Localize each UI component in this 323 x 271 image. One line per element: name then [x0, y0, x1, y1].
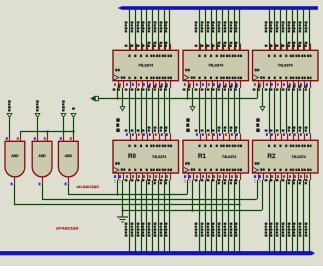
junction node [72, 130, 74, 132]
wire Q1 U1 to D1 R0 [131, 88, 136, 136]
svg-text:st=A&C1&S: st=A&C1&S [77, 184, 100, 189]
wire Q2 U3 to D2 R2 [276, 88, 281, 136]
pin 1 of R2 (bottom) [258, 173, 260, 180]
pin D3 of U1 (top) [147, 44, 149, 51]
wire Q1 U3 to D1 R2 [270, 88, 275, 136]
pin D1 of R1 (top) [206, 134, 208, 141]
pin 1 of U1 (bottom) [113, 81, 119, 91]
driver chip U2 74LS374 (top row) [183, 50, 249, 80]
pin D7 of R0 (top) [170, 134, 172, 141]
pin 9 of U2 (bottom) [212, 81, 218, 91]
pin D4 of R2 (top) [293, 134, 295, 141]
wire R2 Q4 to bottom bus [288, 180, 293, 252]
wire R0 Q2 to bottom bus [137, 180, 142, 252]
wire R0 Q1 to bottom bus [131, 180, 136, 252]
pin 11 of R0 (bottom) [123, 173, 125, 180]
pin 15 of R1 (bottom) [229, 173, 231, 180]
pin number label R0 pin 6 [137, 175, 140, 181]
wire gate U7 output down [14, 184, 16, 206]
junction node [116, 193, 118, 195]
pin 15 of R2 (bottom) [298, 173, 300, 180]
svg-text:R0: R0 [128, 153, 136, 160]
pin number label R2 pin 5 [270, 175, 273, 181]
wire bus tap XD17 [235, 8, 240, 50]
pin 6 of U2 (bottom) [207, 81, 213, 91]
wire Q0 U2 to D0 R1 [195, 88, 200, 136]
wire R2 Q2 to bottom bus [276, 180, 281, 252]
wire Q0 U3 to D0 R2 [265, 88, 270, 136]
wire R2 Q5 to bottom bus [293, 180, 298, 252]
wire Q0 U1 to D0 R0 [125, 88, 130, 136]
wire bus tap XD21 [270, 8, 275, 50]
pin 16 of U1 (bottom) [160, 81, 166, 91]
net label mark at gate U8 output [39, 183, 41, 186]
wire Q7 U1 to D7 R0 [165, 88, 170, 136]
wire R0 pin11 down to ground [122, 180, 124, 217]
wire bus tap XD16 [230, 8, 235, 50]
wire bus tap XD04 [148, 8, 153, 50]
pin D2 of U3 (top) [281, 44, 283, 51]
terminal IOR1 [35, 100, 40, 117]
pin D5 of R0 (top) [159, 134, 161, 141]
pin number label R0 pin 15 [154, 175, 157, 184]
wire R0 pin1 down to gate3 line [117, 180, 119, 195]
pin number label R2 pin 16 [299, 175, 302, 184]
pin 11 of U3 (bottom) [258, 81, 264, 91]
pin D5 of R2 (top) [298, 134, 300, 141]
wire R0 Q6 to bottom bus [160, 180, 165, 252]
pin D6 of U2 (top) [235, 44, 237, 51]
wire R2 Q0 to bottom bus [265, 180, 270, 252]
wire R1 Q0 to bottom bus [195, 180, 200, 252]
pin 6 of U1 (bottom) [137, 81, 143, 91]
pin 5 of R2 (bottom) [275, 173, 277, 180]
pin number label R0 pin 19 [165, 175, 168, 184]
wire terminal S down to shared line [73, 117, 75, 131]
wire gate1 output line to R1 Q7 column [15, 204, 240, 206]
pin D1 of U1 (top) [136, 44, 138, 51]
pin 5 of U2 (bottom) [201, 81, 207, 91]
pin D0 of U2 (top) [200, 44, 202, 51]
pin D2 of R0 (top) [142, 134, 144, 141]
terminal S [71, 108, 76, 118]
pin D3 of R0 (top) [147, 134, 149, 141]
pin 16 of U3 (bottom) [299, 81, 305, 91]
pin number label R1 pin 5 [201, 175, 204, 181]
wire right input of gate U7 [20, 131, 22, 135]
register chip R1 74LS374 (bottom row) [183, 140, 249, 173]
pin D1 of U3 (top) [275, 44, 277, 51]
pin D1 of U2 (top) [206, 44, 208, 51]
pin 19 of R0 (bottom) [170, 173, 172, 180]
pin output of gate U9 [68, 177, 70, 184]
wire R1 Q4 to bottom bus [218, 180, 223, 252]
pin number label R0 pin 16 [160, 175, 163, 184]
junction node [46, 130, 48, 132]
wire terminal IOR0 to gate [9, 117, 11, 134]
wire Q4 U1 to D4 R0 [148, 88, 153, 136]
pin 11 of U1 (bottom) [118, 81, 124, 91]
net label marks at gate U9 inputs [60, 137, 72, 140]
wire Q3 U3 to D3 R2 [282, 88, 287, 136]
net label marks at gate U8 inputs [34, 137, 46, 140]
pin 1 of R0 (bottom) [118, 173, 120, 180]
wire terminal IOR1 to gate [37, 117, 39, 134]
pin number label R2 pin 19 [305, 175, 308, 184]
pin number label R0 pin 5 [131, 175, 134, 181]
wire bus tap XD13 [212, 8, 217, 50]
pin 12 of U1 (bottom) [148, 81, 154, 91]
wire Q5 U2 to D5 R1 [224, 88, 229, 136]
wire gate U8 output down [42, 184, 44, 200]
pin number label R1 pin 12 [218, 175, 221, 184]
wire bus tap XD20 [265, 8, 270, 50]
wire Q4 U2 to D4 R1 [218, 88, 223, 136]
pin number label R2 pin 6 [276, 175, 279, 181]
svg-text:R1: R1 [198, 153, 206, 160]
wire bus tap XD24 [288, 8, 293, 50]
bus: bottom data bus [0, 251, 315, 255]
wire bus tap XD11 [201, 8, 206, 50]
wire R2 Q3 to bottom bus [282, 180, 287, 252]
pin D2 of U2 (top) [212, 44, 214, 51]
wire R0 Q3 to bottom bus [142, 180, 147, 252]
wire R1 Q2 to bottom bus [207, 180, 212, 252]
wire ground tie line to R2 pin11 [123, 180, 263, 211]
svg-text:74LS374: 74LS374 [138, 63, 154, 67]
wire bus tap XD26 [299, 8, 304, 50]
pin D2 of R1 (top) [212, 134, 214, 141]
pin number label R1 pin 19 [235, 175, 238, 184]
pin D3 of R2 (top) [287, 134, 289, 141]
pin input-right of gate U7 [20, 135, 22, 142]
net label mark R2 pin 11 [259, 175, 261, 182]
wire Q3 U2 to D3 R1 [212, 88, 217, 136]
pin D4 of R1 (top) [223, 134, 225, 141]
net label mark at gate U9 output [65, 183, 67, 186]
wire Q6 U3 to D6 R2 [299, 88, 304, 136]
net label mark R0 pin 1 [114, 175, 116, 182]
terminal SB1 (input, down arrow) [186, 107, 195, 132]
pin D4 of R0 (top) [153, 134, 155, 141]
wire R2 Q7 to bottom bus [305, 180, 310, 252]
pin 12 of U2 (bottom) [218, 81, 224, 91]
pin D0 of R1 (top) [200, 134, 202, 141]
pin D7 of U2 (top) [240, 44, 242, 51]
net label mark R2 pin 1 [254, 175, 256, 182]
pin 16 of R0 (bottom) [165, 173, 167, 180]
pin 19 of U1 (bottom) [165, 81, 171, 91]
pin 16 of R1 (bottom) [235, 173, 237, 180]
pin D0 of R2 (top) [270, 134, 272, 141]
pin number label R1 pin 6 [207, 175, 210, 181]
pin D6 of U1 (top) [165, 44, 167, 51]
wire bus tap XD07 [165, 8, 170, 50]
pin 15 of R0 (bottom) [159, 173, 161, 180]
svg-text:AND: AND [38, 154, 46, 158]
pin number label R2 pin 9 [282, 175, 285, 181]
pin 9 of U1 (bottom) [142, 81, 148, 91]
pin 9 of U3 (bottom) [282, 81, 288, 91]
wire terminal IOR2 to gate [63, 117, 65, 134]
pin 11 of U2 (bottom) [188, 81, 194, 91]
wire R1 Q1 to bottom bus [201, 180, 206, 252]
pin 2 of R2 (bottom) [270, 173, 272, 180]
wire bus tap XD01 [131, 8, 136, 50]
svg-text:74LS374: 74LS374 [208, 63, 224, 67]
wire R0 Q7 to bottom bus [165, 180, 170, 252]
wire bus tap XD22 [276, 8, 281, 50]
pin 11 of R2 (bottom) [263, 173, 265, 180]
pin 2 of U3 (bottom) [265, 81, 271, 91]
pin number label R0 pin 2 [125, 175, 128, 181]
junction node [238, 203, 240, 205]
pin number label R0 pin 12 [148, 175, 151, 184]
pin 6 of R0 (bottom) [142, 173, 144, 180]
pin 11 of R1 (bottom) [193, 173, 195, 180]
pin D2 of U1 (top) [142, 44, 144, 51]
pin 19 of R1 (bottom) [240, 173, 242, 180]
pin 19 of U2 (bottom) [235, 81, 241, 91]
wire bus tap XD15 [224, 8, 229, 50]
svg-text:R2: R2 [268, 153, 276, 160]
pin 2 of U1 (bottom) [125, 81, 131, 91]
terminal IOR0 [7, 100, 12, 117]
wire Q4 U3 to D4 R2 [288, 88, 293, 136]
wire bus tap XD05 [154, 8, 159, 50]
wire gate U9 output down [68, 184, 70, 195]
pin D2 of R2 (top) [281, 134, 283, 141]
svg-text:74LS374: 74LS374 [278, 63, 294, 67]
pin D3 of U2 (top) [217, 44, 219, 51]
pin 5 of R0 (bottom) [136, 173, 138, 180]
wire R1 Q7 to bottom bus [235, 180, 240, 252]
net label mark R1 pin 1 [184, 175, 186, 182]
pin 6 of R2 (bottom) [281, 173, 283, 180]
wire R0 Q4 to bottom bus [148, 180, 153, 252]
wire bus tap XD12 [207, 8, 212, 50]
wire bus tap XD00 [125, 8, 130, 50]
wire shared S line across gate right inputs [20, 131, 73, 133]
wire bus tap XD02 [137, 8, 142, 50]
svg-text:AND: AND [11, 154, 19, 158]
pin D6 of R0 (top) [165, 134, 167, 141]
pin D6 of R2 (top) [304, 134, 306, 141]
pin number label R1 pin 15 [224, 175, 227, 184]
pin D5 of U2 (top) [229, 44, 231, 51]
pin D7 of U1 (top) [170, 44, 172, 51]
wire Q6 U2 to D6 R1 [230, 88, 235, 136]
pin 1 of U2 (bottom) [183, 81, 189, 91]
register chip R2 74LS374 (bottom row) [253, 140, 319, 173]
pin input-left of gate U7 [9, 135, 11, 142]
and-gate U8 [32, 141, 52, 177]
pin 9 of R2 (bottom) [287, 173, 289, 180]
wire R2 Q6 to bottom bus [299, 180, 304, 252]
junction node [191, 209, 193, 211]
wire bus tap XD23 [282, 8, 287, 50]
pin 16 of U2 (bottom) [230, 81, 236, 91]
pin 5 of U3 (bottom) [270, 81, 276, 91]
terminal IOR2 [61, 100, 66, 117]
ground [117, 217, 128, 222]
pin D5 of R1 (top) [229, 134, 231, 141]
pin D6 of U3 (top) [304, 44, 306, 51]
pin number label R1 pin 9 [212, 175, 215, 181]
pin 12 of R0 (bottom) [153, 173, 155, 180]
terminal SB2 (input, down arrow) [256, 107, 265, 132]
wire Q5 U3 to D5 R2 [293, 88, 298, 136]
pin D0 of U3 (top) [270, 44, 272, 51]
pin 15 of U3 (bottom) [293, 81, 299, 91]
wire Q7 U3 to D7 R2 [305, 88, 310, 136]
wire R0 Q5 to bottom bus [154, 180, 159, 252]
annotation st=A&C1&S (lower) [56, 225, 79, 230]
wire R1 Q5 to bottom bus [224, 180, 229, 252]
pin D3 of U3 (top) [287, 44, 289, 51]
pin D5 of U1 (top) [159, 44, 161, 51]
wire R1 pin11 down to ground tie line [192, 180, 194, 211]
wire Q2 U2 to D2 R1 [207, 88, 212, 136]
pin number label R1 pin 16 [230, 175, 233, 184]
net label marks at gate U7 inputs [6, 137, 19, 140]
pin 15 of U1 (bottom) [154, 81, 160, 91]
wire OE U1 to strobe line [117, 88, 119, 98]
pin 12 of U3 (bottom) [288, 81, 294, 91]
wire bus tap XD06 [160, 8, 165, 50]
terminal OE strobe (left arrow) [91, 96, 98, 101]
wire R2 Q1 to bottom bus [270, 180, 275, 252]
wire R1 Q3 to bottom bus [212, 180, 217, 252]
pin number label R0 pin 9 [142, 175, 145, 181]
pin input-left of gate U9 [63, 135, 65, 142]
pin 16 of R2 (bottom) [304, 173, 306, 180]
driver chip U3 74LS374 (top row) [253, 50, 319, 80]
wire gate3 output line to R1 pin1 [68, 180, 187, 195]
pin D4 of U1 (top) [153, 44, 155, 51]
pin input-right of gate U8 [47, 135, 49, 142]
pin 1 of R1 (bottom) [188, 173, 190, 180]
pin D7 of R2 (top) [310, 134, 312, 141]
wire R0 Q0 to bottom bus [125, 180, 130, 252]
wire strobe line to U3 pin1 [98, 88, 257, 99]
wire right input of gate U8 [47, 131, 49, 135]
svg-text:74LS374: 74LS374 [222, 155, 236, 159]
terminal SB0 (input, down arrow) [116, 107, 125, 132]
pin 19 of U3 (bottom) [305, 81, 311, 91]
pin 9 of R1 (bottom) [217, 173, 219, 180]
pin number label R2 pin 12 [288, 175, 291, 184]
pin number label R2 pin 2 [265, 175, 268, 181]
svg-text:74LS374: 74LS374 [292, 155, 306, 159]
pin 12 of R2 (bottom) [293, 173, 295, 180]
pin 5 of R1 (bottom) [206, 173, 208, 180]
pin 1 of U3 (bottom) [253, 81, 259, 91]
junction node on strobe line [116, 97, 118, 99]
pin output of gate U7 [14, 177, 16, 184]
net label mark at gate U7 output [11, 183, 13, 186]
pin input-right of gate U9 [73, 135, 75, 142]
junction node [121, 209, 123, 211]
net label mark R0 pin 11 [119, 175, 121, 182]
pin 19 of R2 (bottom) [310, 173, 312, 180]
and-gate U9 [58, 141, 78, 177]
wire Q6 U1 to D6 R0 [160, 88, 165, 136]
wire CLK U2 down to terminal [192, 88, 194, 107]
pin D4 of U3 (top) [293, 44, 295, 51]
pin D7 of R1 (top) [240, 134, 242, 141]
pin 2 of R0 (bottom) [130, 173, 132, 180]
pin input-left of gate U8 [37, 135, 39, 142]
pin D0 of R0 (top) [130, 134, 132, 141]
pin 6 of U3 (bottom) [276, 81, 282, 91]
pin D1 of R0 (top) [136, 134, 138, 141]
wire CLK U1 down to terminal [122, 88, 124, 107]
wire Q5 U1 to D5 R0 [154, 88, 159, 136]
register chip R0 74LS374 (bottom row) [113, 140, 179, 173]
wire CLK U3 down to terminal [262, 88, 264, 107]
pin 6 of R1 (bottom) [212, 173, 214, 180]
wire Q7 U2 to D7 R1 [235, 88, 240, 136]
pin D7 of U3 (top) [310, 44, 312, 51]
wire bus tap XD27 [305, 8, 310, 50]
pin 2 of U2 (bottom) [195, 81, 201, 91]
junction node on strobe line [186, 97, 188, 99]
wire Q1 U2 to D1 R1 [201, 88, 206, 136]
annotation st=A&C1&S (upper) [77, 184, 100, 189]
wire bus tap XD03 [142, 8, 147, 50]
pin D1 of R2 (top) [275, 134, 277, 141]
driver chip U1 74LS374 (top row) [113, 50, 179, 80]
pin number label R2 pin 15 [293, 175, 296, 184]
pin 12 of R1 (bottom) [223, 173, 225, 180]
net label mark R1 pin 11 [189, 175, 191, 182]
pin output of gate U8 [42, 177, 44, 184]
svg-text:AND: AND [65, 154, 73, 158]
svg-text:st=A&C1&S: st=A&C1&S [56, 225, 79, 230]
pin 9 of R0 (bottom) [147, 173, 149, 180]
wire Q2 U1 to D2 R0 [137, 88, 142, 136]
wire OE U2 to strobe line [187, 88, 189, 98]
wire bus tap XD10 [195, 8, 200, 50]
wire bus tap XD14 [218, 8, 223, 50]
pin D4 of U2 (top) [223, 44, 225, 51]
svg-text:74LS374: 74LS374 [152, 155, 166, 159]
pin 5 of U1 (bottom) [131, 81, 137, 91]
pin D3 of R1 (top) [217, 134, 219, 141]
pin D6 of R1 (top) [235, 134, 237, 141]
pin 15 of U2 (bottom) [224, 81, 230, 91]
pin D0 of U1 (top) [130, 44, 132, 51]
wire bus tap XD25 [293, 8, 298, 50]
wire right input of gate U9 [73, 131, 75, 135]
pin 2 of R1 (bottom) [200, 173, 202, 180]
pin D5 of U3 (top) [298, 44, 300, 51]
and-gate U7 [5, 141, 25, 177]
wire R1 Q6 to bottom bus [230, 180, 235, 252]
bus: top data bus [118, 6, 319, 10]
pin number label R1 pin 2 [195, 175, 198, 181]
wire gate2 output line to R2 pin1 [42, 180, 257, 200]
wire Q3 U1 to D3 R0 [142, 88, 147, 136]
